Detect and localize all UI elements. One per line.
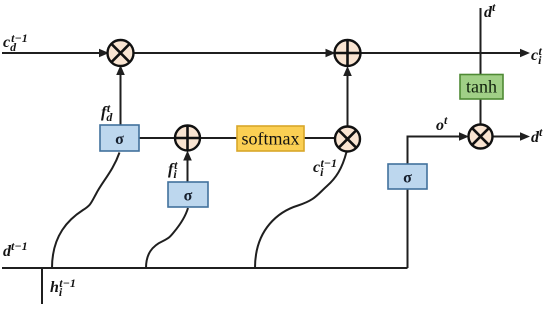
wire: vertical from sigma-d up into X1 (120, 73, 122, 125)
wire: bottom input line (2, 267, 408, 269)
adder P2 (middle plus) (175, 126, 200, 151)
svg-text:ot: ot (436, 113, 448, 134)
wire: curve from bottom line to X2 (255, 152, 347, 268)
wire: vertical X2 up into P1 (347, 74, 349, 127)
arrowhead into P1 from below (343, 66, 352, 76)
arrowhead into X3 from left (459, 132, 469, 141)
wire: vertical sigma-i up into P2 (187, 159, 189, 182)
multiplier X3 (output gate) (469, 125, 493, 149)
svg-text:σ: σ (403, 170, 412, 187)
svg-text:dt: dt (531, 125, 543, 146)
wire: sigma-o down to bottom line (407, 189, 409, 268)
arrowhead into P2 from below (183, 151, 192, 161)
svg-text:cdt−1: cdt−1 (3, 31, 28, 54)
wire: tanh to X3 (480, 99, 482, 125)
multiplier X1 (forget old cell state) (108, 40, 134, 66)
softmax box (237, 126, 304, 151)
wire: separator tick between d and h inputs (41, 268, 43, 304)
svg-text:dt−1: dt−1 (3, 239, 28, 260)
svg-text:fdt: fdt (101, 101, 113, 124)
wire: top line output segment to c_i^t (361, 52, 522, 54)
wire: X3 output to d^t (493, 136, 523, 138)
multiplier X2 (attention times c_i) (335, 127, 360, 152)
wire: top line between X1 and P1 (133, 52, 328, 54)
wire: P2 right to softmax (200, 137, 237, 139)
wire: softmax to X2 (304, 137, 336, 139)
svg-text:fit: fit (168, 158, 178, 181)
wire: curve from bottom line to sigma-d (52, 153, 120, 269)
sigma gate sigma-o box (388, 164, 427, 189)
wire: sigma-d right to P2 (139, 137, 175, 139)
arrowhead into X1 from left (99, 49, 109, 58)
arrowhead into X1 from below (116, 65, 125, 75)
arrowhead output c_i^t (520, 49, 530, 58)
svg-text:softmax: softmax (242, 129, 300, 149)
arrowhead into P1 from left (326, 49, 336, 58)
wire: curve from bottom line to sigma-i (146, 208, 188, 268)
adder P1 (cell state update) (335, 40, 361, 66)
svg-text:σ: σ (115, 131, 124, 148)
svg-text:σ: σ (184, 188, 193, 205)
wire: d^t input vertical line (480, 8, 482, 75)
svg-text:cit−1: cit−1 (313, 156, 337, 179)
svg-text:dt: dt (484, 0, 496, 21)
svg-text:tanh: tanh (466, 77, 497, 97)
arrowhead output d^t (520, 132, 530, 141)
svg-text:cit: cit (531, 44, 542, 67)
tanh box (460, 75, 503, 100)
svg-text:hit−1: hit−1 (50, 276, 76, 299)
wire: top cell-state line left segment (2, 52, 102, 54)
wire: o^t line from sigma-o corner to X3 (408, 137, 462, 165)
sigma gate sigma-d box (100, 125, 139, 151)
sigma gate sigma-i box (168, 182, 208, 207)
